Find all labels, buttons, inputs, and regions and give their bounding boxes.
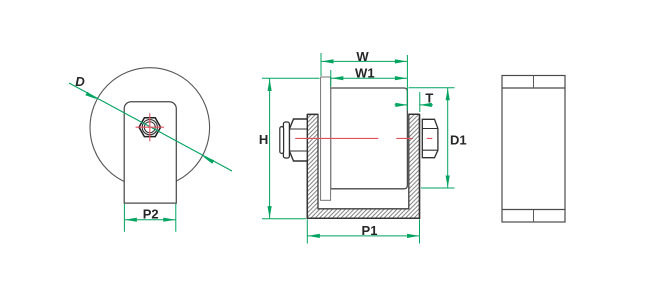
bracket plate (left view) [124, 102, 176, 203]
washer [283, 122, 289, 158]
svg-text:T: T [425, 91, 433, 106]
dimension D arrow upper-left [85, 92, 97, 100]
side flange plate [321, 77, 331, 200]
H extension lines [262, 78, 320, 219]
W1 arrow left [331, 76, 343, 80]
red center mark crosshair [136, 113, 164, 141]
T dimension lines [395, 104, 434, 106]
top band line [502, 87, 565, 89]
nut chamfer lines [422, 129, 438, 151]
H dimension line [269, 78, 271, 219]
W arrow left [322, 59, 334, 63]
P2 arrow right [163, 218, 175, 222]
hex nut (left view) [139, 118, 161, 137]
red center line [295, 137, 432, 139]
P1 extension lines [307, 219, 419, 243]
W1 arrow right [395, 76, 407, 80]
D1 extension lines [409, 88, 455, 188]
side elevation outline [502, 76, 565, 223]
P2 extension lines [124, 204, 175, 232]
bottom band line [502, 209, 565, 211]
bottom band divider [533, 210, 535, 223]
wheel circle [90, 68, 210, 188]
T arrow pointing right [395, 103, 407, 107]
svg-text:W: W [356, 49, 369, 64]
W1 extension line [330, 70, 332, 87]
nut outer circle [142, 120, 157, 135]
svg-text:P2: P2 [143, 207, 159, 222]
bolt head chamfer lines [289, 129, 307, 151]
W1 dimension line [331, 77, 408, 79]
P2 dimension line [124, 219, 175, 221]
T extension line [419, 92, 421, 112]
top band divider [533, 76, 535, 89]
H arrow up [268, 79, 272, 91]
W arrow right [395, 59, 407, 63]
D1 arrow down [446, 176, 450, 188]
hex nut (right side) [422, 119, 438, 157]
D1 dimension line [447, 88, 449, 188]
svg-text:D1: D1 [450, 132, 467, 147]
svg-text:H: H [259, 132, 268, 147]
T arrow pointing left [420, 103, 432, 107]
W dimension line [321, 60, 407, 62]
P1 arrow right [407, 234, 419, 238]
axle end cap [280, 127, 284, 154]
D1 arrow up [446, 88, 450, 100]
roller cross-section [331, 88, 408, 189]
H arrow down [268, 206, 272, 218]
svg-text:P1: P1 [362, 223, 378, 238]
P2 arrow left [125, 218, 137, 222]
nut inner circle [144, 122, 155, 133]
dimension D arrow lower-right [203, 156, 215, 164]
dimension D leader line [69, 83, 232, 171]
W extension lines [321, 53, 407, 111]
svg-text:D: D [75, 74, 85, 89]
svg-text:W1: W1 [355, 66, 375, 81]
U-channel outer border (heavier) [307, 114, 419, 218]
bolt hex head (left) [289, 119, 307, 161]
P1 dimension line [307, 235, 419, 237]
U-channel bracket cross-section (hatched) [307, 114, 419, 218]
P1 arrow left [308, 234, 320, 238]
